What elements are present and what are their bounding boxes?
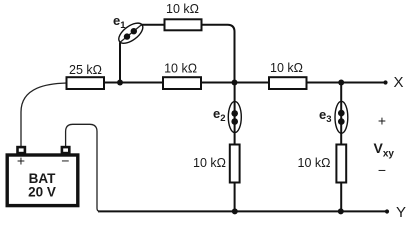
svg-text:+: + xyxy=(17,153,25,169)
svg-text:10 kΩ: 10 kΩ xyxy=(270,61,303,75)
svg-text:10 kΩ: 10 kΩ xyxy=(298,156,331,170)
svg-text:10 kΩ: 10 kΩ xyxy=(193,156,226,170)
svg-text:25 kΩ: 25 kΩ xyxy=(69,63,102,77)
svg-text:20 V: 20 V xyxy=(28,185,56,200)
svg-text:−: − xyxy=(378,162,386,178)
svg-text:X: X xyxy=(394,74,404,91)
svg-text:10 kΩ: 10 kΩ xyxy=(166,2,199,16)
svg-text:+: + xyxy=(378,113,386,129)
svg-text:10 kΩ: 10 kΩ xyxy=(164,62,197,76)
svg-text:Y: Y xyxy=(396,204,406,221)
svg-text:−: − xyxy=(61,153,69,169)
